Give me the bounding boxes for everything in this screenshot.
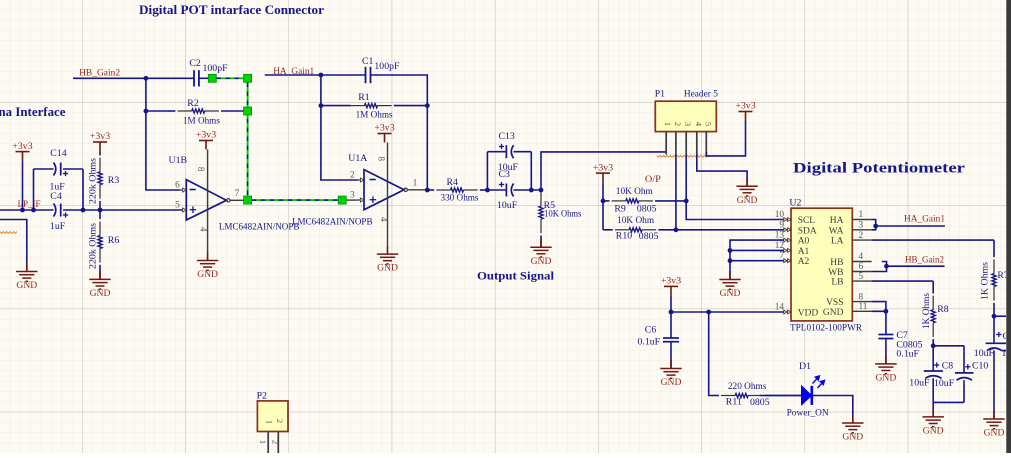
svg-text:10K Ohm: 10K Ohm [616,186,653,197]
resistor R6 220k Ohms [99,210,101,219]
svg-text:2: 2 [673,122,683,126]
svg-text:GND: GND [531,256,552,267]
wire input row I/P_IF from left edge [0,209,34,211]
capacitor C4 1uF [60,204,62,217]
selected wire dashed output to U1A [252,199,338,201]
capacitor hidden right edge [1002,342,1011,344]
svg-text:330 Ohms: 330 Ohms [441,193,479,204]
wire R1 row left [321,105,351,107]
ground GND divider [99,271,101,280]
svg-text:HA_Gain1: HA_Gain1 [904,214,945,225]
wire C9 to gnd [993,351,995,419]
capacitor C1 100pF [365,67,367,83]
wire C14 row left [34,168,54,170]
wire A2 to gnd column [730,260,784,262]
ground GND C7 [885,355,887,364]
svg-text:HA: HA [830,216,844,226]
U2 pin 10 SCL stub [784,219,791,221]
svg-text:SCL: SCL [798,216,816,226]
wire LA pin2 to R7 column [872,239,994,241]
wire C14 branch right riser [82,169,84,210]
U2 pin 9 SDA stub [784,229,791,231]
orange ERC squiggle under P1 [657,155,710,157]
svg-text:GND: GND [720,288,741,299]
svg-text:GND: GND [876,373,897,384]
wire HA_Gain1 row [265,74,366,76]
svg-text:7: 7 [235,189,240,199]
svg-text:Power_ON: Power_ON [787,408,829,419]
svg-text:220 Ohms: 220 Ohms [728,381,767,392]
svg-text:WA: WA [829,226,844,236]
junction divider/row [98,208,103,213]
resistor R9 10K Ohm 0805 [603,200,610,202]
svg-text:4: 4 [198,227,208,232]
selected wire dashed feedback vertical [247,83,249,197]
svg-text:C2: C2 [189,58,201,69]
wire +3v3 pullup column [602,182,604,230]
op-amp U1B triangle [186,180,226,220]
U1B pin 5 stub [180,209,186,211]
wire A0 to gnd column [730,240,784,279]
P2 pin stubs [267,432,269,454]
capacitor C13 10uF [505,145,507,158]
svg-text:WB: WB [828,268,843,278]
wire LB pin5 to R8 column [872,280,934,282]
U2 pin 5 LB stub [852,280,871,282]
junction A2/gnd column [728,258,733,263]
svg-text:na Interface: na Interface [0,105,66,119]
svg-text:D1: D1 [799,361,811,372]
junction A1/gnd column [728,248,733,253]
svg-text:C3: C3 [499,169,511,180]
junction R1 left [319,103,324,108]
junction R1 right/feedback column [425,103,430,108]
wire U1B V+ pin 8 through triangle [207,150,209,253]
IC U2 TPL0102-100PWR body [791,208,852,321]
resistor R2 1M Ohms [168,110,175,112]
U1A plus sign pin3 [370,199,377,201]
svg-text:4: 4 [694,122,704,127]
wire U1A output to junction [408,189,428,191]
svg-text:10K Ohm: 10K Ohm [617,215,654,226]
svg-text:C13: C13 [499,131,515,142]
resistor R1 1M Ohms [394,105,428,107]
wire +3v3 to input row [22,161,24,210]
svg-text:C6: C6 [645,325,657,336]
svg-text:LA: LA [831,237,844,247]
P1 pin stubs [665,132,667,155]
junction R9 left [601,199,606,204]
wire C10 top lead [963,346,965,373]
svg-text:0.1uF: 0.1uF [896,349,919,360]
wire HB pin4 to HB_Gain2 net [872,262,887,272]
connector P1 Header 5 [655,101,716,131]
ground GND C8/C10 [932,408,934,417]
capacitor C14 1uF [60,163,62,176]
wire P1 pin3 column to SCL [686,155,784,220]
U1B pin 6 stub [180,189,186,191]
wire A1 to gnd column [730,249,784,251]
svg-text:+3v3: +3v3 [374,123,394,134]
junction HB/WB tie [884,264,889,269]
U2 pin 11 GND stub [852,310,871,312]
selection vertex square C2 right [208,74,216,82]
svg-text:1: 1 [413,178,418,188]
wire C14 branch left riser [33,169,35,210]
wire C4 to divider [63,209,100,211]
svg-text:10uF: 10uF [909,378,930,389]
ground GND D1 [852,415,854,424]
svg-text:TPL0102-100PWR: TPL0102-100PWR [790,323,862,334]
svg-text:6: 6 [175,181,180,191]
selection vertex square U1B output [244,196,252,204]
svg-text:GND: GND [823,308,844,318]
svg-text:1M Ohms: 1M Ohms [356,110,393,121]
svg-text:C1: C1 [362,56,374,67]
dark application panel edge right [1007,0,1011,453]
wire C3 right [514,189,542,191]
U1A pin 2 stub [358,179,364,181]
junction U1A output node [425,188,430,193]
wire D1 cathode to gnd [813,396,853,424]
junction R7 bottom node [992,314,997,319]
U2 pin 8 VSS stub [852,301,871,303]
svg-text:3: 3 [859,221,864,231]
svg-text:P1: P1 [655,89,665,100]
wire C14 row right [63,168,83,170]
junction VDD/C6 [669,310,674,315]
svg-text:LMC6482AIN/NOPB: LMC6482AIN/NOPB [292,217,373,228]
svg-text:R9: R9 [614,204,626,215]
svg-text:Digital Potentiometer: Digital Potentiometer [793,161,966,177]
svg-text:220k Ohms: 220k Ohms [88,223,99,269]
wire R2 row left [146,110,168,112]
wire C10 bottom lead [963,380,965,402]
wire bottom rail C8-C10 [933,401,964,403]
svg-text:8: 8 [196,167,206,172]
U2 pin 3 WA stub [852,229,871,231]
capacitor C8 10uF [924,370,943,372]
svg-text:+3v3: +3v3 [661,276,681,287]
svg-text:5: 5 [859,272,864,282]
svg-text:HB_Gain2: HB_Gain2 [905,255,944,266]
wire vertex to U1A pin3 [347,199,358,201]
wire input row 2 from left edge [0,220,27,272]
wire U1A V+ pin 8 through triangle [387,143,389,246]
selected wire dashed C2 to corner [217,77,244,79]
U2 pin 6 WB stub [852,271,871,273]
ground GND R5 [540,239,542,248]
U2 pin 14 VDD stub [784,311,791,313]
U2 pin 7 A2 stub [784,260,791,262]
svg-text:10uF: 10uF [934,378,955,389]
wire C13 branch left riser [486,152,488,190]
wire P1 pin4 to GND [697,155,747,187]
wire VDD row to U2 [671,311,784,313]
svg-text:C10: C10 [972,360,988,371]
svg-text:R3: R3 [108,175,120,186]
wire +3v3 to VDD row [670,295,672,312]
junction R9/pin3 column [684,199,689,204]
wire D1 anode [760,395,802,397]
svg-text:P2: P2 [257,391,267,402]
svg-text:14: 14 [775,303,785,313]
svg-text:220k Ohms: 220k Ohms [88,158,99,204]
junction C13 right/row [529,188,534,193]
ground GND U1A [387,246,389,255]
wire P1 pin2 column to SDA row [675,155,677,230]
junction R5/riser/row [539,188,544,193]
wire HA pin1 to HA_Gain1 net [872,220,876,230]
svg-text:10uF: 10uF [974,348,995,359]
wire C13 row right [514,151,532,153]
op-amp U1A triangle [364,170,404,210]
wire node to C10 branch [933,345,964,347]
svg-text:0805: 0805 [637,204,657,215]
wire C1 right to feedback corner [371,75,428,190]
svg-text:R1: R1 [358,92,370,103]
resistor R7 1K Ohms [993,240,995,257]
svg-text:1: 1 [663,122,673,126]
wire left column to U1A pin2 [321,75,358,180]
LED D1 arrows [813,376,825,388]
svg-text:GND: GND [90,288,111,299]
resistor R8 1K Ohms [932,281,934,293]
svg-text:U1A: U1A [348,153,367,164]
resistor R3 220k Ohms [99,151,101,155]
svg-text:R6: R6 [108,235,120,246]
svg-text:SDA: SDA [798,226,817,236]
wire HB column down to pin6 [146,78,180,190]
wire C4 row left [34,209,54,211]
capacitor C3 10uF [505,184,507,197]
selection vertex square R2 right [244,107,252,115]
junction VSS/GND tie [884,309,889,314]
svg-text:1K Ohms: 1K Ohms [921,293,932,329]
svg-text:+3v3: +3v3 [196,130,216,141]
svg-text:+3v3: +3v3 [12,141,32,152]
svg-text:1M Ohms: 1M Ohms [183,116,220,127]
U2 pin 2 LA stub [852,239,871,241]
wire HB_Gain2 net right [886,265,945,267]
svg-text:4: 4 [859,252,864,262]
junction HA row/left column [319,73,324,78]
svg-text:Output Signal: Output Signal [477,269,555,283]
U1A pin 3 stub [358,199,364,201]
selection vertex square top corner [244,74,252,82]
wire R11 column [709,312,712,396]
resistor R10 10K Ohm 0805 [603,229,613,231]
capacitor C7 C0805 0.1uF [878,334,893,336]
svg-text:1: 1 [258,440,268,444]
wire C6 top lead [670,312,672,338]
svg-text:HB: HB [830,258,843,268]
svg-text:GND: GND [16,280,37,291]
svg-text:HB_Gain2: HB_Gain2 [79,68,120,79]
wire U1B output to vertex [230,199,244,201]
junction HB_Gain2/feedback column [144,76,149,81]
svg-text:7: 7 [779,251,784,261]
svg-text:GND: GND [661,377,682,388]
svg-text:9: 9 [779,220,784,230]
svg-text:2: 2 [859,231,864,241]
wire C8 top lead [932,346,934,371]
U1B output pin 7 circle [227,199,230,202]
svg-text:A1: A1 [798,247,810,257]
svg-text:LB: LB [831,278,843,288]
svg-text:1uF: 1uF [50,221,66,232]
svg-text:R11: R11 [726,397,742,408]
svg-text:GND: GND [842,432,863,443]
svg-text:12: 12 [775,241,785,251]
wire C7 to gnd [885,339,887,364]
svg-text:10: 10 [775,210,785,220]
svg-text:8: 8 [377,156,387,161]
svg-text:+3v3: +3v3 [735,101,755,112]
U1B plus sign pin5 [190,209,197,211]
svg-text:3: 3 [350,191,355,201]
svg-text:1K Ohms: 1K Ohms [980,262,991,300]
junction C14 right/row [81,208,86,213]
wire output riser to header row [541,152,666,190]
svg-text:A0: A0 [798,237,810,247]
junction VDD/R11 column [706,310,711,315]
svg-text:4: 4 [379,217,389,222]
svg-text:GND: GND [923,426,944,437]
svg-text:1: 1 [859,210,864,220]
svg-text:0.1uF: 0.1uF [638,337,661,348]
capacitor C10 10uF [955,372,974,374]
svg-text:+3v3: +3v3 [593,162,613,173]
svg-text:A2: A2 [798,257,810,267]
U2 pin 12 A1 stub [784,249,791,251]
svg-text:R10: R10 [616,231,632,242]
svg-text:100pF: 100pF [203,63,229,74]
junction HA/WA tie [873,224,878,229]
ground GND U1B [207,252,209,261]
LED D1 [802,386,812,405]
junction R10/pin2 column -> SDA [674,227,679,232]
wire C13 branch right riser [530,152,532,190]
wire P1 pin5 to +3v3 [706,121,745,156]
svg-text:R8: R8 [937,304,949,315]
svg-text:11: 11 [859,302,868,312]
resistor R5 10K Ohms [540,189,542,191]
svg-text:5: 5 [703,122,713,126]
wire C6 to gnd [670,342,672,369]
U1B minus sign pin6 [190,189,196,191]
wire HA_Gain1 net right [876,225,945,227]
junction C13 branch left [485,188,490,193]
svg-text:Header 5: Header 5 [684,89,718,100]
capacitor C2 100pF [193,70,195,86]
selection vertex square U1A pin3 [338,196,346,204]
svg-text:10K Ohms: 10K Ohms [544,209,581,220]
wire SDA row to U2 [676,229,784,231]
svg-text:O/P: O/P [645,174,662,185]
ground GND input shield [26,263,28,272]
svg-text:1: 1 [265,420,275,424]
svg-text:VSS: VSS [826,298,843,308]
U2 pin 13 A0 stub [784,239,791,241]
wire C2 to selection vertex [199,77,209,79]
wire C13 row left [487,151,505,153]
wire HB_Gain2 row [73,77,194,79]
junction +3v3/input row [20,208,25,213]
wire divider to U1B pin5 [100,209,183,211]
junction C14 branch left [31,208,36,213]
svg-text:U1B: U1B [169,155,188,166]
ground GND C6 [670,360,672,369]
wire node to right edge [994,315,1007,317]
wire C3 row left [487,189,505,191]
svg-text:GND: GND [984,428,1005,439]
capacitor C9 10uF (right) [986,342,1003,344]
wire C8 bottom lead [932,378,934,402]
svg-text:R2: R2 [187,98,199,109]
ground GND right column [993,411,995,420]
ground GND P1 pin4 [746,178,748,187]
junction R2 row/HB column [144,109,149,114]
connector P2 [257,401,288,432]
svg-text:GND: GND [197,269,218,280]
svg-text:C8: C8 [942,360,954,371]
svg-text:100pF: 100pF [374,61,400,72]
wire R7 node to C9 [993,316,995,343]
junction R8 bottom node [931,343,936,348]
svg-text:+3v3: +3v3 [90,131,110,142]
svg-text:13: 13 [775,231,785,241]
wire VSS pin8 right [872,302,886,312]
orange ERC squiggle left [0,232,17,234]
svg-text:C14: C14 [50,148,66,159]
svg-text:5: 5 [175,201,180,211]
svg-text:8: 8 [859,292,864,302]
svg-text:VDD: VDD [798,309,819,319]
ground GND address pins [729,271,731,280]
resistor R11 220 Ohms 0805 [712,395,719,397]
capacitor C6 0.1uF [663,337,679,339]
svg-text:0805: 0805 [639,231,659,242]
svg-text:GND: GND [377,263,398,274]
wire rail to gnd [932,402,934,417]
svg-text:GND: GND [737,195,758,206]
svg-text:10uF: 10uF [497,200,518,211]
U1A minus sign pin2 [370,179,376,181]
svg-text:U2: U2 [789,198,801,209]
svg-text:2: 2 [271,440,281,444]
svg-text:LMC6482AIN/NOPB: LMC6482AIN/NOPB [219,222,300,233]
svg-text:2: 2 [275,419,285,423]
svg-text:Digital POT intarface Connecto: Digital POT intarface Connector [139,3,324,17]
svg-text:2: 2 [350,171,355,181]
svg-text:3: 3 [683,122,693,126]
svg-text:0805: 0805 [750,397,770,408]
svg-text:C4: C4 [50,191,62,202]
svg-text:R4: R4 [447,177,459,188]
U2 pin 4 HB stub [852,261,871,263]
resistor R4 330 Ohms [427,189,434,191]
svg-text:6: 6 [859,262,864,272]
U1A output pin 1 circle [404,188,407,191]
wire GND pin11 to C7 [872,311,886,333]
U2 pin 1 HA stub [852,219,871,221]
